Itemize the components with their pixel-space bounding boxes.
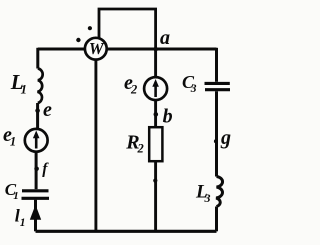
source e2 circle xyxy=(144,77,167,100)
svg-text:2: 2 xyxy=(137,142,144,156)
svg-text:1: 1 xyxy=(21,81,28,96)
svg-text:1: 1 xyxy=(13,190,18,202)
wire left branch bottom xyxy=(34,200,37,232)
svg-text:W: W xyxy=(89,39,105,58)
node f xyxy=(34,167,39,172)
node g xyxy=(214,139,218,143)
source e1 arrow xyxy=(35,136,38,149)
svg-text:3: 3 xyxy=(204,191,211,205)
wire right branch bottom xyxy=(215,207,218,232)
svg-text:1: 1 xyxy=(20,217,26,229)
svg-text:b: b xyxy=(163,105,173,127)
source e2 arrow xyxy=(154,85,157,98)
wire left branch below source e1 xyxy=(35,150,38,189)
capacitor C1 xyxy=(22,191,50,199)
inductor L3 xyxy=(216,177,222,207)
wire left branch upper xyxy=(36,48,39,69)
node e xyxy=(35,108,40,113)
node a junction xyxy=(153,47,158,52)
svg-text:3: 3 xyxy=(190,83,197,95)
resistor R2 xyxy=(149,127,162,161)
svg-text:e: e xyxy=(43,99,52,121)
wire right branch middle xyxy=(215,91,218,176)
svg-text:g: g xyxy=(220,127,231,149)
svg-text:2: 2 xyxy=(130,82,137,96)
node junction below R2 xyxy=(153,179,157,183)
inductor L1 xyxy=(37,69,42,104)
current arrow I1 xyxy=(30,205,41,220)
svg-text:1: 1 xyxy=(10,134,16,148)
wire bottom bus xyxy=(36,230,217,233)
wire middle branch e2/R2 xyxy=(154,49,157,231)
svg-text:a: a xyxy=(160,27,170,49)
node b xyxy=(154,112,159,117)
wire wattmeter voltage-coil loop to node a xyxy=(99,9,156,49)
wattmeter W circle xyxy=(85,38,107,60)
wire top bus xyxy=(38,48,217,51)
wire right branch upper xyxy=(215,48,218,82)
capacitor C3 xyxy=(205,83,231,89)
svg-text:f: f xyxy=(42,161,49,178)
source e1 circle xyxy=(25,129,48,152)
wire wattmeter bottom lead xyxy=(94,55,97,231)
wattmeter polarity dot lower xyxy=(76,38,80,42)
wire left branch middle xyxy=(36,103,39,130)
wattmeter polarity dot upper xyxy=(88,26,92,30)
